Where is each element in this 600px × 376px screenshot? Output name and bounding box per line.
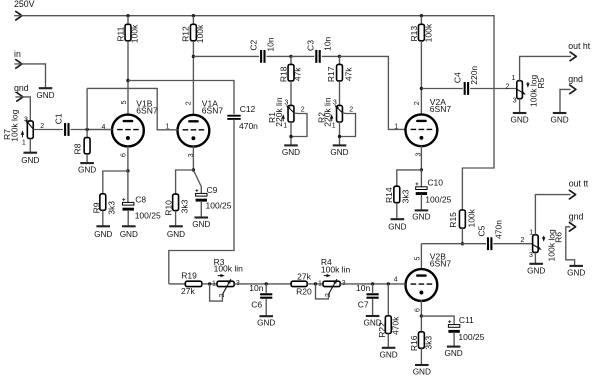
junction C3-R17 — [338, 55, 341, 58]
wire R11 to V1B plate — [127, 41, 129, 115]
svg-text:3k3: 3k3 — [423, 336, 433, 350]
potentiometer R7 — [2, 109, 44, 146]
junction C6 — [265, 282, 268, 285]
svg-text:2: 2 — [520, 237, 524, 244]
wire R5 bottom — [519, 99, 521, 113]
svg-text:100k lin: 100k lin — [214, 264, 244, 274]
wire R2 bottom — [339, 122, 341, 145]
junction R12-C2 — [192, 55, 195, 58]
svg-text:220k lin: 220k lin — [274, 97, 284, 127]
wire R5 to out ht — [520, 56, 571, 80]
resistor R9 — [91, 194, 116, 215]
ground R14 — [388, 219, 406, 231]
junction R4 wiper node — [314, 282, 317, 285]
svg-text:C3: C3 — [305, 40, 315, 51]
svg-text:3k3: 3k3 — [107, 201, 117, 215]
svg-text:100/25: 100/25 — [458, 332, 484, 342]
svg-text:2: 2 — [186, 101, 193, 105]
svg-text:2: 2 — [505, 84, 509, 91]
wire V2B cathode — [420, 300, 422, 316]
ground in-jack — [36, 88, 54, 100]
wire R16 to gnd — [420, 348, 422, 364]
wire C2 to R18 — [267, 55, 292, 57]
svg-text:R14: R14 — [384, 187, 394, 203]
wire R10 to gnd — [175, 211, 177, 226]
wire C11 to gnd — [453, 332, 455, 346]
junction C7 — [371, 282, 374, 285]
port in label — [14, 49, 21, 59]
capacitor C1 — [53, 113, 69, 136]
wire gnd ht — [560, 89, 571, 112]
ground R8 — [78, 163, 96, 175]
junction V1B cathode — [126, 169, 129, 172]
svg-text:27k: 27k — [181, 286, 195, 296]
svg-text:220k lin: 220k lin — [323, 97, 333, 127]
wire grid link to V1A — [87, 88, 178, 129]
ground C7 — [363, 316, 381, 327]
resistor R18 — [278, 56, 302, 82]
svg-text:100k lin: 100k lin — [321, 265, 351, 275]
tube V1B 6SN7 — [102, 99, 158, 157]
svg-text:GND: GND — [388, 223, 406, 232]
svg-text:R17: R17 — [326, 66, 336, 82]
svg-text:C5: C5 — [476, 225, 486, 236]
ground C9 — [192, 218, 210, 229]
resistor R15 — [448, 208, 477, 228]
svg-text:3k3: 3k3 — [180, 199, 190, 213]
junction V2A plate-C4 — [420, 87, 423, 90]
junction V2A cathode — [420, 168, 423, 171]
ground gnd-ht — [550, 113, 568, 125]
wire C1 to grid node — [71, 129, 113, 131]
svg-text:47k: 47k — [292, 67, 302, 81]
junction R2 bottom — [338, 135, 341, 138]
svg-text:3: 3 — [333, 100, 337, 107]
wire R4 to V2B grid — [340, 283, 405, 285]
svg-text:GND: GND — [550, 116, 568, 125]
resistor R13 — [409, 16, 434, 43]
junction V1B plate — [126, 79, 129, 82]
svg-text:R20: R20 — [296, 286, 312, 296]
capacitor C7 — [356, 283, 379, 310]
port gnd label — [14, 83, 29, 93]
resistor R19 — [181, 271, 202, 297]
wire R1 wiper wrap — [291, 113, 307, 137]
svg-text:3: 3 — [284, 100, 288, 107]
ground R22 — [379, 348, 397, 360]
tube V1A 6SN7 — [166, 99, 224, 158]
potentiometer R3 — [212, 257, 243, 297]
svg-text:R22: R22 — [377, 322, 387, 338]
port gnd tt label — [569, 211, 584, 221]
svg-text:100/25: 100/25 — [206, 201, 232, 211]
port gnd tt arrow — [569, 223, 575, 232]
capacitor C10 — [416, 170, 452, 205]
wire V1B plate to C12 — [128, 81, 234, 115]
wire C12 down to bass net — [169, 120, 234, 284]
wire V1A cathode — [192, 146, 194, 170]
svg-text:R13: R13 — [409, 26, 419, 42]
resistor R11 — [115, 16, 139, 44]
svg-text:R5: R5 — [536, 77, 546, 88]
svg-text:GND: GND — [330, 148, 348, 157]
capacitor C6 — [249, 283, 272, 310]
capacitor C2 — [248, 37, 275, 63]
svg-text:C1: C1 — [53, 113, 63, 124]
svg-text:GND: GND — [510, 116, 528, 125]
svg-text:C6: C6 — [251, 300, 262, 310]
svg-text:1: 1 — [22, 139, 26, 146]
wire V2B plate — [421, 243, 486, 245]
wire C8 to gnd — [127, 210, 129, 226]
svg-text:C8: C8 — [135, 194, 146, 204]
wire C4 to R5 wiper — [470, 88, 516, 90]
svg-text:gnd: gnd — [568, 74, 583, 84]
svg-text:GND: GND — [379, 350, 397, 359]
junction rail-R11 — [126, 14, 129, 17]
wire R13 to V2A plate — [420, 41, 422, 115]
junction R1 bottom — [289, 135, 292, 138]
wire R18 to R1 — [290, 81, 292, 106]
ground C8 — [120, 226, 138, 239]
wire R17 to R2 — [339, 81, 341, 106]
ground R2 — [330, 145, 348, 157]
svg-text:1: 1 — [318, 281, 322, 288]
wire cathode to R10 — [176, 170, 194, 194]
svg-text:6SN7: 6SN7 — [430, 104, 452, 114]
junction R22 — [387, 282, 390, 285]
svg-text:R12: R12 — [181, 26, 191, 42]
wire R2 wiper wrap — [340, 113, 356, 137]
svg-text:10n: 10n — [249, 283, 263, 293]
potentiometer R2 — [317, 97, 354, 129]
wire C9 to gnd — [200, 201, 202, 217]
wire R20 to R4 — [307, 283, 323, 285]
wire in to gnd symbol — [14, 64, 45, 88]
svg-text:R16: R16 — [409, 335, 419, 351]
wire gnd to R7 — [15, 97, 30, 121]
junction rail-R13 — [420, 14, 423, 17]
svg-text:GND: GND — [444, 349, 462, 358]
wire R6 bottom — [534, 252, 536, 263]
capacitor C9 — [193, 170, 231, 211]
svg-text:GND: GND — [21, 156, 39, 165]
junction V1A cathode — [192, 168, 195, 171]
svg-text:10n: 10n — [266, 37, 276, 51]
junction R3 wiper node — [208, 282, 211, 285]
svg-text:6: 6 — [415, 308, 422, 312]
svg-text:2: 2 — [301, 106, 305, 113]
resistor R17 — [326, 56, 353, 82]
wire V2A cathode — [420, 146, 422, 170]
svg-text:6SN7: 6SN7 — [202, 106, 224, 116]
port in arrow — [16, 60, 22, 69]
svg-text:470n: 470n — [239, 121, 258, 131]
capacitor C4 — [452, 66, 479, 95]
port out tt arrow — [569, 190, 575, 199]
svg-text:GND: GND — [36, 91, 54, 100]
svg-text:2: 2 — [414, 101, 421, 105]
net 250V label — [14, 0, 35, 9]
svg-text:5: 5 — [121, 100, 128, 104]
capacitor C8 — [122, 171, 161, 221]
port out tt label — [569, 179, 589, 189]
wire R6 to out tt — [535, 195, 570, 235]
svg-text:100k: 100k — [195, 24, 205, 43]
potentiometer R5 — [505, 75, 546, 107]
port gnd ht label — [568, 74, 583, 84]
capacitor C11 — [421, 315, 484, 342]
svg-text:GND: GND — [192, 220, 210, 229]
ground C6 — [257, 316, 275, 327]
wire 250V rail — [14, 16, 494, 211]
wire grid node up — [86, 88, 88, 129]
wire R19 to R3 — [202, 283, 217, 285]
svg-text:3: 3 — [529, 252, 533, 259]
svg-text:6SN7: 6SN7 — [136, 106, 158, 116]
svg-text:R6: R6 — [554, 232, 564, 243]
wire bass net left — [169, 283, 186, 285]
svg-text:6: 6 — [121, 153, 128, 157]
wire V1B grid stub — [87, 129, 112, 131]
resistor R10 — [163, 194, 189, 216]
wire R1 bottom — [290, 122, 292, 145]
svg-text:GND: GND — [94, 230, 112, 239]
resistor R12 — [181, 16, 205, 44]
svg-text:R10: R10 — [163, 200, 173, 216]
svg-text:27k: 27k — [297, 271, 311, 281]
potentiometer R4 — [318, 257, 350, 297]
svg-text:4: 4 — [394, 276, 398, 283]
svg-text:C7: C7 — [358, 300, 369, 310]
potentiometer R6 — [520, 229, 563, 261]
wire V2A plate to C4 — [421, 88, 462, 90]
svg-text:C9: C9 — [207, 185, 218, 195]
svg-text:C11: C11 — [459, 315, 474, 325]
svg-text:R15: R15 — [448, 212, 458, 228]
svg-text:10n: 10n — [356, 283, 370, 293]
resistor R14 — [384, 186, 410, 203]
ground gnd-tt — [567, 266, 585, 278]
junction C1-R8 — [85, 128, 88, 131]
junction rail-R12 — [192, 14, 195, 17]
svg-text:1: 1 — [212, 281, 216, 288]
svg-text:470n: 470n — [494, 220, 504, 239]
svg-text:C12: C12 — [240, 104, 256, 114]
wire cathode to R14 — [397, 170, 422, 186]
svg-text:GND: GND — [78, 166, 96, 175]
wire gnd tt — [566, 227, 575, 266]
svg-text:250V: 250V — [14, 0, 35, 9]
wire C6 to gnd — [265, 299, 267, 316]
port out ht arrow — [570, 52, 576, 61]
svg-text:GND: GND — [412, 213, 430, 222]
port out ht label — [568, 41, 591, 51]
wire R15 to plate node — [461, 228, 463, 244]
ground C11 — [444, 347, 462, 359]
potentiometer R1 — [267, 97, 305, 129]
svg-text:R19: R19 — [181, 271, 197, 281]
svg-text:in: in — [14, 49, 21, 59]
junction V2B cathode — [420, 314, 423, 317]
capacitor C3 — [305, 36, 332, 62]
wire R4 wiper wrap — [316, 284, 329, 299]
svg-text:3: 3 — [24, 116, 28, 123]
svg-text:10n: 10n — [323, 36, 333, 50]
svg-text:100k: 100k — [129, 24, 139, 43]
wire plate riser V2B — [420, 244, 422, 269]
svg-text:GND: GND — [567, 269, 585, 278]
svg-text:out tt: out tt — [569, 179, 589, 189]
junction R15-C5 — [461, 242, 464, 245]
svg-text:5: 5 — [415, 256, 422, 260]
capacitor C12 — [227, 104, 258, 131]
svg-text:3: 3 — [513, 98, 517, 105]
wire treble to V2A grid — [340, 56, 406, 129]
svg-text:100/25: 100/25 — [135, 211, 161, 221]
svg-text:1: 1 — [394, 124, 398, 131]
wire R18 junction to C3 — [291, 55, 314, 57]
ground R10 — [167, 226, 185, 239]
wire R22 to gnd — [387, 334, 389, 348]
svg-text:220n: 220n — [469, 66, 479, 85]
svg-text:GND: GND — [413, 368, 431, 376]
svg-text:C2: C2 — [248, 39, 258, 50]
wire R12 to C2 — [193, 55, 259, 57]
svg-text:1: 1 — [511, 75, 515, 82]
svg-text:R9: R9 — [91, 202, 101, 213]
svg-text:R18: R18 — [278, 66, 288, 82]
svg-text:3k3: 3k3 — [400, 189, 410, 203]
wire C10 to gnd — [420, 194, 422, 210]
ground R5 — [510, 113, 528, 125]
wire C5 to R6 wiper — [493, 243, 532, 245]
svg-text:gnd: gnd — [14, 83, 29, 93]
svg-text:gnd: gnd — [569, 211, 584, 221]
wire R3 to C6 — [234, 283, 291, 285]
svg-text:100/25: 100/25 — [425, 194, 451, 204]
wire C3 to R17 — [322, 55, 340, 57]
svg-text:C10: C10 — [427, 177, 443, 187]
port gnd arrow — [17, 93, 23, 102]
resistor R20 — [291, 271, 312, 296]
wire R7 wiper to C1 — [33, 129, 63, 131]
svg-text:100k: 100k — [467, 208, 477, 227]
svg-text:R11: R11 — [115, 26, 125, 41]
svg-text:GND: GND — [167, 230, 185, 239]
ground R9 — [94, 226, 112, 239]
tube V2B 6SN7 — [394, 252, 452, 312]
ground R7 — [21, 139, 39, 165]
svg-text:GND: GND — [282, 148, 300, 157]
svg-text:100k: 100k — [424, 23, 434, 42]
svg-text:GND: GND — [120, 230, 138, 239]
svg-text:GND: GND — [257, 319, 275, 328]
svg-text:100k log: 100k log — [9, 109, 19, 141]
wire V1B cathode — [127, 146, 129, 171]
ground C10 — [412, 210, 430, 221]
resistor R22 — [377, 284, 401, 338]
svg-text:1: 1 — [529, 229, 533, 236]
svg-text:2: 2 — [349, 106, 353, 113]
wire R8 to gnd — [86, 154, 88, 163]
svg-text:out ht: out ht — [568, 41, 591, 51]
junction C2-R18 — [289, 55, 292, 58]
tube V2A 6SN7 — [394, 97, 451, 156]
svg-text:6SN7: 6SN7 — [430, 259, 452, 269]
svg-text:C4: C4 — [452, 72, 462, 83]
wire cathode to R9 — [103, 171, 128, 194]
svg-text:47k: 47k — [343, 67, 353, 81]
wire R9 to gnd — [102, 210, 104, 226]
wire R3 wiper wrap — [210, 284, 223, 301]
resistor R8 — [73, 130, 90, 155]
wire R12 to V1A plate — [192, 41, 194, 115]
wire R14 to gnd — [396, 203, 398, 219]
ground R6 — [527, 264, 545, 276]
ground R1 — [282, 145, 300, 157]
wire C7 to gnd — [372, 299, 374, 316]
port 250V arrow — [16, 11, 22, 20]
svg-text:GND: GND — [527, 266, 545, 275]
svg-text:470k: 470k — [390, 316, 400, 335]
svg-text:R8: R8 — [73, 143, 83, 154]
ground R16 — [413, 365, 431, 376]
capacitor C5 — [476, 220, 503, 250]
port gnd ht arrow — [570, 85, 576, 94]
resistor R16 — [409, 316, 434, 351]
